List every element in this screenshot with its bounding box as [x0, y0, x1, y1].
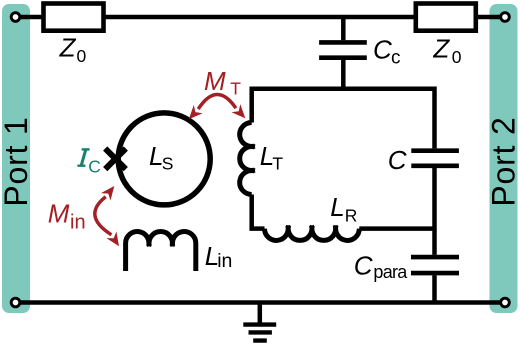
svg-text:T: T	[230, 79, 241, 99]
svg-text:L: L	[330, 192, 344, 222]
wire: Cc lower lead	[341, 60, 346, 91]
mutual coupling arrow Min	[95, 197, 112, 235]
port 1 top terminal	[11, 13, 20, 22]
resistor Z0 left	[44, 4, 104, 31]
wire: loop bottom right segment	[359, 226, 434, 231]
svg-text:in: in	[70, 212, 86, 234]
port 2 bottom terminal	[501, 298, 510, 307]
svg-text:S: S	[162, 153, 174, 173]
svg-text:C: C	[388, 145, 407, 175]
ground stem	[258, 303, 263, 323]
wire: top rail	[16, 15, 506, 20]
svg-text:Port 1: Port 1	[0, 116, 34, 206]
svg-text:R: R	[345, 206, 358, 226]
port 1 bottom terminal	[11, 298, 20, 307]
svg-text:in: in	[217, 250, 232, 272]
inductor LT coil	[240, 123, 255, 195]
svg-text:0: 0	[77, 46, 87, 66]
ground bars	[243, 325, 276, 341]
svg-text:T: T	[272, 154, 283, 174]
mutual coupling arrow MT	[198, 95, 236, 110]
Port 2 terminal block	[490, 4, 518, 313]
svg-text:Z: Z	[59, 32, 77, 62]
svg-text:c: c	[391, 48, 401, 69]
label IC (critical current)	[77, 149, 89, 165]
Port 1 terminal block	[2, 4, 30, 313]
port 2 top terminal	[501, 13, 510, 22]
svg-text:C: C	[373, 34, 392, 64]
svg-text:0: 0	[452, 47, 462, 67]
resistor Z0 right	[416, 4, 476, 31]
svg-text:C: C	[354, 251, 373, 281]
wire: right branch upper lead	[432, 87, 437, 149]
svg-text:Z: Z	[432, 33, 450, 63]
svg-text:M: M	[204, 66, 226, 96]
svg-text:para: para	[373, 262, 408, 282]
SQUID loop LS circle	[118, 113, 210, 205]
inductor LR coil	[265, 226, 360, 241]
inductor Lin coil	[126, 231, 196, 271]
wire: loop lower-left corner	[252, 195, 265, 229]
Josephson junction cross	[105, 149, 126, 170]
capacitor CC plates	[319, 42, 367, 57]
capacitor C plates	[411, 151, 459, 166]
wire: right branch lower lead	[432, 275, 437, 302]
svg-text:M: M	[48, 198, 70, 228]
wire: bottom rail	[16, 300, 506, 305]
wire: Cc upper lead	[341, 17, 346, 40]
capacitor Cpara plates	[411, 257, 459, 273]
wire: resonator loop top and upper-left	[252, 89, 435, 123]
wire: right branch middle lead	[432, 168, 437, 255]
svg-text:Port 2: Port 2	[486, 116, 520, 206]
svg-text:C: C	[88, 157, 101, 177]
